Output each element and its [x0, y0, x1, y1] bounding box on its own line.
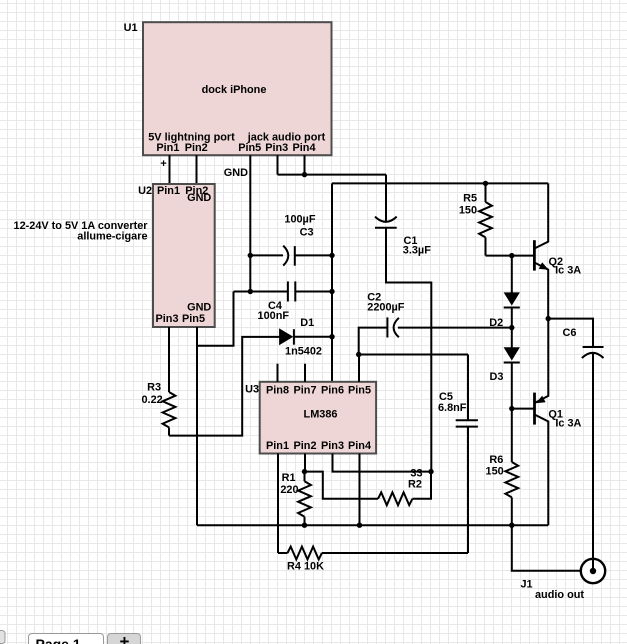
svg-text:R5: R5	[463, 193, 477, 205]
wire U1 Pin3 down	[277, 155, 279, 174]
svg-text:audio out: audio out	[535, 589, 584, 601]
diode D2	[489, 256, 520, 329]
svg-text:Pin3: Pin3	[321, 440, 344, 452]
svg-text:Pin1: Pin1	[157, 185, 180, 197]
svg-text:Pin2: Pin2	[294, 440, 317, 452]
capacitor C1	[375, 175, 431, 472]
diode D1	[280, 317, 332, 358]
svg-text:GND: GND	[187, 192, 211, 204]
wire U2 Pin5 down to bottom rail	[196, 327, 198, 525]
wire Pin3-Pin4 node to C1	[278, 174, 387, 176]
junction D2 top node	[509, 253, 514, 258]
svg-text:100nF: 100nF	[258, 310, 290, 322]
svg-text:150: 150	[486, 466, 504, 478]
wire LM386 Pin4 down to rail	[359, 454, 361, 526]
svg-text:Ic 3A: Ic 3A	[555, 418, 581, 430]
resistor R2	[378, 467, 431, 505]
wire LM386 Pin3 to 33 node	[333, 454, 432, 472]
wire Pin2 node to R2	[305, 472, 379, 499]
wire LM386 Pin2 down	[304, 454, 306, 472]
dock iPhone U1	[124, 22, 332, 155]
svg-text:220: 220	[280, 484, 298, 496]
capacitor C4	[234, 281, 333, 321]
svg-text:Pin6: Pin6	[321, 385, 344, 397]
junction R1 bottom on rail	[302, 523, 307, 528]
capacitor C2	[359, 292, 512, 355]
svg-text:+: +	[160, 158, 166, 170]
svg-text:U3: U3	[245, 384, 259, 396]
junction R6 bottom on rail	[509, 523, 514, 528]
svg-text:1n5402: 1n5402	[285, 346, 322, 358]
transistor Q2	[534, 183, 581, 318]
connector J1 audio out	[521, 559, 606, 601]
svg-text:R1: R1	[282, 472, 296, 484]
svg-text:GND: GND	[187, 301, 211, 313]
junction 33 node	[428, 469, 433, 474]
wire Pin5 node to C5	[359, 354, 468, 356]
junction D2 cathode node	[509, 325, 514, 330]
svg-text:Page 1: Page 1	[36, 636, 81, 644]
svg-text:+: +	[120, 632, 130, 644]
converter U2	[14, 184, 215, 327]
wire U1 Pin2 to U2 Pin2	[196, 155, 198, 184]
svg-text:D1: D1	[300, 317, 314, 329]
junction C2 left at Pin5 node	[356, 352, 361, 357]
svg-text:3.3µF: 3.3µF	[403, 245, 431, 257]
svg-text:GND: GND	[224, 167, 248, 179]
svg-text:Pin3: Pin3	[156, 313, 179, 325]
junction D1 cathode bus	[329, 334, 334, 339]
svg-text:R2: R2	[408, 479, 422, 491]
svg-text:Pin8: Pin8	[266, 385, 289, 397]
resistor R6	[486, 409, 519, 526]
svg-text:R3: R3	[147, 382, 161, 394]
svg-text:150: 150	[459, 205, 477, 217]
wire LM386 Pin8 stub	[277, 364, 279, 382]
svg-text:C6: C6	[563, 327, 577, 339]
page tab Page 1	[29, 634, 104, 644]
wire LM386 Pin7 stub	[304, 364, 306, 382]
junction C4 right	[329, 289, 334, 294]
resistor R3	[141, 327, 175, 436]
svg-text:Pin5: Pin5	[182, 313, 205, 325]
resistor R5	[459, 183, 492, 255]
junction C3 right	[329, 253, 334, 258]
svg-text:R6: R6	[489, 454, 503, 466]
resistor R1	[280, 472, 311, 526]
transistor Q1	[512, 319, 582, 526]
wire U1 Pin4 down	[304, 155, 306, 174]
wire R5 bottom to Q2 base	[486, 255, 535, 257]
svg-text:Pin7: Pin7	[294, 385, 317, 397]
svg-text:Pin4: Pin4	[348, 440, 371, 452]
svg-text:Pin4: Pin4	[293, 142, 316, 154]
svg-text:Pin5: Pin5	[348, 385, 371, 397]
wire rail to J1	[512, 525, 581, 571]
svg-text:U2: U2	[138, 185, 152, 197]
junction C6 node	[546, 316, 551, 321]
junction Pin2 node	[302, 469, 307, 474]
junction Pin4 on rail	[357, 523, 362, 528]
junction C3 left	[248, 253, 253, 258]
diode D3	[489, 328, 519, 409]
wire U1 Pin1 to U2 Pin1	[169, 155, 171, 184]
wire C4 left to U2 Pin5	[197, 292, 234, 346]
junction Q1 base node	[509, 406, 514, 411]
svg-text:LM386: LM386	[304, 408, 338, 420]
svg-text:Pin1: Pin1	[156, 142, 179, 154]
junction C4 left GND	[248, 289, 253, 294]
svg-text:Pin5: Pin5	[238, 142, 261, 154]
wire Pin5 node down into LM386 Pin5	[358, 355, 360, 382]
svg-text:Ic 3A: Ic 3A	[555, 265, 581, 277]
svg-text:J1: J1	[521, 579, 533, 591]
svg-text:Pin2: Pin2	[185, 142, 208, 154]
junction Pin4 node	[302, 172, 307, 177]
svg-text:Pin1: Pin1	[266, 440, 289, 452]
page tab plus button	[108, 632, 141, 644]
svg-text:R4 10K: R4 10K	[287, 561, 324, 573]
svg-text:0.22: 0.22	[141, 394, 162, 406]
capacitor C3	[250, 214, 332, 266]
svg-text:dock iPhone: dock iPhone	[202, 84, 267, 96]
capacitor C5	[438, 355, 478, 554]
wire U1 Pin5 GND down	[249, 155, 251, 291]
svg-text:allume-cigare: allume-cigare	[77, 231, 147, 243]
svg-text:C3: C3	[300, 226, 314, 238]
svg-text:D3: D3	[489, 371, 503, 383]
svg-text:D2: D2	[489, 317, 503, 329]
wire LM386 Pin1 down to R4 line	[277, 454, 279, 554]
svg-text:6.8nF: 6.8nF	[438, 402, 467, 414]
wire top rail from x332 to Q2 collector	[332, 182, 548, 184]
junction R5 top on rail	[483, 181, 488, 186]
wire bottom rail	[197, 524, 548, 526]
svg-text:33: 33	[410, 467, 422, 479]
capacitor C6	[548, 319, 603, 559]
svg-text:100µF: 100µF	[284, 214, 315, 226]
svg-text:Pin3: Pin3	[265, 142, 288, 154]
resistor R4	[278, 547, 468, 573]
wire R3 bottom to D1 anode	[169, 337, 280, 436]
svg-text:2200µF: 2200µF	[367, 302, 405, 314]
svg-text:U1: U1	[124, 22, 138, 34]
page tab nub left	[0, 631, 5, 644]
op-amp U3 LM386	[245, 382, 376, 454]
wire vertical bus x332 from rail to LM386 Pin6	[331, 183, 333, 381]
